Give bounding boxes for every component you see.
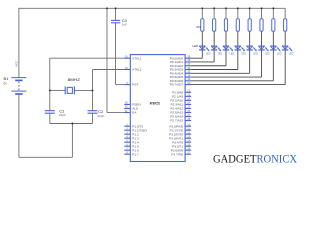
svg-text:LED: LED <box>289 53 294 55</box>
pin 39 P0.0/AD0 (right) <box>170 54 191 60</box>
svg-text:P3.7/RD: P3.7/RD <box>171 152 183 156</box>
pin 35 P0.4/AD4 (right) <box>170 70 191 76</box>
svg-text:36: 36 <box>187 66 190 70</box>
resistor R3 <box>224 19 227 31</box>
LED D8 <box>282 46 292 51</box>
resistor R8 <box>284 19 287 31</box>
wire crystal left vertical <box>49 58 51 110</box>
svg-text:XTAL2: XTAL2 <box>132 68 142 72</box>
pin 27 P2.6/A14 (right) <box>170 113 191 119</box>
svg-text:24: 24 <box>187 101 190 105</box>
pin 23 P2.2/A10 (right) <box>170 97 191 103</box>
node rail-C3 junction <box>115 7 117 9</box>
wire R6-D6-cathode column <box>261 31 263 77</box>
node rail-R1 junction <box>201 7 203 9</box>
wire D4 to P0.3 run <box>191 69 238 71</box>
capacitor C2 <box>88 111 98 114</box>
wire XTAL2 horizontal wire <box>93 69 125 71</box>
svg-text:35: 35 <box>187 70 190 74</box>
LED D3 <box>223 46 233 51</box>
svg-text:22pF: 22pF <box>97 114 104 118</box>
node crystal left node <box>49 89 51 91</box>
wire EA pin wire <box>107 112 124 114</box>
resistor R2 <box>213 19 216 31</box>
node rail-R7 junction <box>272 7 274 9</box>
LED D1 <box>199 46 209 51</box>
node rail-EA junction <box>106 7 108 9</box>
svg-text:LED: LED <box>193 44 200 48</box>
wire R7 top lead <box>272 8 274 18</box>
wire D5 to P0.4 run <box>191 72 250 74</box>
node rail-R5 junction <box>249 7 251 9</box>
wire R8-D8-cathode column <box>284 31 286 84</box>
op-amp U1 AT89C52 IC body <box>130 55 185 162</box>
svg-text:10: 10 <box>187 122 190 126</box>
battery B1 <box>11 78 26 94</box>
svg-text:LED: LED <box>230 53 235 55</box>
svg-text:RONICX: RONICX <box>257 153 298 166</box>
GADGETRONICX logo <box>213 153 298 166</box>
svg-text:38: 38 <box>187 58 190 62</box>
wire capacitor ground rail <box>50 123 93 125</box>
svg-text:17: 17 <box>187 150 190 154</box>
svg-text:13: 13 <box>187 134 190 138</box>
pin 26 P2.5/A13 (right) <box>170 109 191 115</box>
svg-text:AT89C52: AT89C52 <box>150 102 160 106</box>
svg-text:33: 33 <box>187 77 190 81</box>
svg-text:LED: LED <box>277 53 282 55</box>
pin 19 XTAL1 (left) <box>124 54 142 60</box>
pin 11 P3.1/TXD (right) <box>170 126 191 132</box>
svg-text:34: 34 <box>187 73 190 77</box>
LED D2 <box>211 46 221 51</box>
svg-text:39: 39 <box>187 54 190 58</box>
svg-text:15: 15 <box>187 142 190 146</box>
wire R5 top lead <box>249 8 251 18</box>
svg-text:18: 18 <box>125 66 128 70</box>
svg-text:23: 23 <box>187 97 190 101</box>
pin 38 P0.1/AD1 (right) <box>170 58 191 64</box>
pin 34 P0.5/AD5 (right) <box>170 73 191 79</box>
wire D8 to P0.7 run <box>191 84 285 86</box>
wire RST pin wire <box>116 84 125 86</box>
svg-text:GADGET: GADGET <box>213 153 257 166</box>
resistor R7 <box>272 19 275 31</box>
pin 1 P1.0/T2 (left) <box>124 122 143 128</box>
pin 18 XTAL2 (left) <box>124 66 142 72</box>
svg-text:25: 25 <box>187 105 190 109</box>
svg-text:21: 21 <box>187 89 190 93</box>
svg-text:19: 19 <box>125 54 128 58</box>
pin 37 P0.2/AD2 (right) <box>170 62 191 68</box>
wire C3 to RST drop <box>115 23 117 85</box>
pin 14 P3.4/T0 (right) <box>172 138 191 144</box>
wire ground riser to cap rail <box>71 124 73 158</box>
wire crystal right lead <box>75 89 93 91</box>
wire D7 to P0.6 run <box>191 80 273 82</box>
wire ground bottom run <box>19 156 73 158</box>
pin 33 P0.6/AD6 (right) <box>170 77 191 83</box>
svg-text:37: 37 <box>187 62 190 66</box>
svg-text:VCC: VCC <box>15 60 19 67</box>
resistor R6 <box>260 19 263 31</box>
pin 31 EA (left) <box>124 109 137 115</box>
svg-text:30: 30 <box>125 105 128 109</box>
svg-text:16: 16 <box>187 146 190 150</box>
svg-text:29: 29 <box>125 101 128 105</box>
pin 36 P0.3/AD3 (right) <box>170 66 191 72</box>
svg-text:26: 26 <box>187 109 190 113</box>
LED D6 <box>258 46 268 51</box>
wire R5-D5-cathode column <box>249 31 251 73</box>
pin 21 P2.0/A8 (right) <box>172 89 191 95</box>
crystal X1 8MHZ <box>65 86 74 94</box>
svg-text:8MHZ: 8MHZ <box>68 77 81 82</box>
wire R3 top lead <box>225 8 227 18</box>
svg-text:31: 31 <box>125 109 128 113</box>
wire R2 top lead <box>213 8 215 18</box>
LED D4 <box>235 46 245 51</box>
node rail-R3 junction <box>225 7 227 9</box>
pin 15 P3.5/T1 (right) <box>172 142 191 148</box>
wire R2-D2-cathode column <box>213 31 215 62</box>
svg-text:11: 11 <box>187 126 190 130</box>
wire R1-D1-cathode column <box>201 31 203 58</box>
pin 3 P1.2 (left) <box>124 130 139 136</box>
wire R1 top lead <box>201 8 203 18</box>
svg-text:6v: 6v <box>4 81 8 85</box>
node rail-R2 junction <box>213 7 215 9</box>
pin 6 P1.5 (left) <box>124 142 139 148</box>
pin 25 P2.4/A12 (right) <box>170 105 191 111</box>
svg-text:28: 28 <box>187 117 190 121</box>
wire D6 to P0.5 run <box>191 76 261 78</box>
node crystal right node <box>92 89 94 91</box>
resistor R5 <box>248 19 251 31</box>
svg-text:RST: RST <box>132 83 138 87</box>
capacitor C1 <box>45 111 55 114</box>
wire D1 to P0.0 run <box>191 57 202 59</box>
wire battery positive riser <box>18 8 20 78</box>
pin 16 P3.6/WR (right) <box>171 146 191 152</box>
resistor R4 <box>236 19 239 31</box>
LED D5 <box>246 46 256 51</box>
wire VCC top rail <box>19 7 285 9</box>
pin 10 P3.0/RXD (right) <box>169 122 191 128</box>
wire R7-D7-cathode column <box>272 31 274 81</box>
node capacitor rail ground tap <box>71 123 73 125</box>
pin 5 P1.4 (left) <box>124 138 139 144</box>
svg-text:LED: LED <box>218 53 223 55</box>
wire VCC to C3 top <box>115 8 117 20</box>
wire crystal right vertical <box>92 70 94 111</box>
pin 32 P0.7/AD7 (right) <box>170 81 191 87</box>
svg-text:14: 14 <box>187 138 190 142</box>
node rail-R4 junction <box>237 7 239 9</box>
LED D7 <box>270 46 280 51</box>
svg-text:470: 470 <box>196 25 201 29</box>
wire XTAL1 horizontal wire <box>50 57 125 59</box>
pin 30 ALE (left) <box>124 105 138 111</box>
pin 17 P3.7/RD (right) <box>171 150 191 156</box>
svg-text:LED: LED <box>206 53 211 55</box>
wire VCC to EA drop <box>106 8 108 112</box>
wire C2 bottom lead <box>92 113 94 123</box>
pin 22 P2.1/A9 (right) <box>172 93 191 99</box>
svg-text:LED: LED <box>253 53 258 55</box>
pin 12 P3.2/INT0 (right) <box>169 130 191 136</box>
wire R4-D4-cathode column <box>237 31 239 69</box>
pin 28 P2.7/A15 (right) <box>170 117 191 123</box>
svg-text:27: 27 <box>187 113 190 117</box>
pin 9 RST (left) <box>124 81 138 87</box>
wire C1 bottom lead <box>49 113 51 123</box>
svg-text:P2.7/A15: P2.7/A15 <box>170 119 183 123</box>
pin 8 P1.7 (left) <box>124 150 139 156</box>
pin 4 P1.3 (left) <box>124 134 139 140</box>
pin 29 PSEN (left) <box>124 101 140 107</box>
wire R6 top lead <box>261 8 263 18</box>
svg-text:22pF: 22pF <box>59 113 66 117</box>
pin 2 P1.1/T2EX (left) <box>124 126 147 132</box>
svg-text:LED: LED <box>241 53 246 55</box>
wire R4 top lead <box>237 8 239 18</box>
svg-text:P1.7: P1.7 <box>132 152 139 156</box>
wire R8 top lead <box>284 8 286 18</box>
wire D2 to P0.1 run <box>191 61 214 63</box>
pin 24 P2.3/A11 (right) <box>171 101 192 107</box>
svg-text:12: 12 <box>187 130 190 134</box>
svg-text:P0.7/AD7: P0.7/AD7 <box>170 83 184 87</box>
wire battery negative drop <box>18 95 20 158</box>
pin 13 P3.3/INT1 (right) <box>169 134 191 140</box>
wire R3-D3-cathode column <box>225 31 227 66</box>
wire D3 to P0.2 run <box>191 65 226 67</box>
svg-text:LED: LED <box>265 53 270 55</box>
svg-text:22: 22 <box>187 93 190 97</box>
svg-text:XTAL1: XTAL1 <box>132 56 142 60</box>
wire crystal left lead <box>50 89 65 91</box>
svg-text:32: 32 <box>187 81 190 85</box>
capacitor C3 <box>111 20 120 22</box>
pin 7 P1.6 (left) <box>124 146 139 152</box>
resistor R1 <box>201 19 204 31</box>
svg-text:1uF: 1uF <box>122 22 127 26</box>
node rail-R6 junction <box>261 7 263 9</box>
